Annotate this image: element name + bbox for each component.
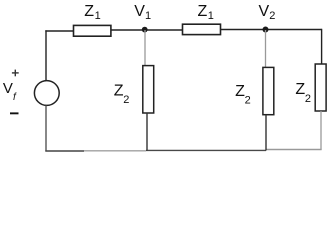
svg-text:2: 2 (245, 94, 251, 106)
svg-text:V: V (3, 80, 13, 97)
svg-text:V: V (259, 3, 270, 20)
svg-text:f: f (13, 92, 17, 103)
svg-text:Z: Z (198, 3, 208, 20)
svg-text:V: V (134, 3, 145, 20)
svg-text:Z: Z (235, 83, 245, 100)
svg-text:1: 1 (208, 10, 214, 22)
svg-text:1: 1 (145, 10, 151, 22)
svg-text:Z: Z (84, 3, 94, 20)
svg-text:2: 2 (123, 94, 129, 106)
svg-text:2: 2 (269, 10, 275, 22)
svg-text:1: 1 (95, 10, 101, 22)
svg-text:Z: Z (295, 81, 305, 98)
svg-text:2: 2 (305, 93, 311, 105)
